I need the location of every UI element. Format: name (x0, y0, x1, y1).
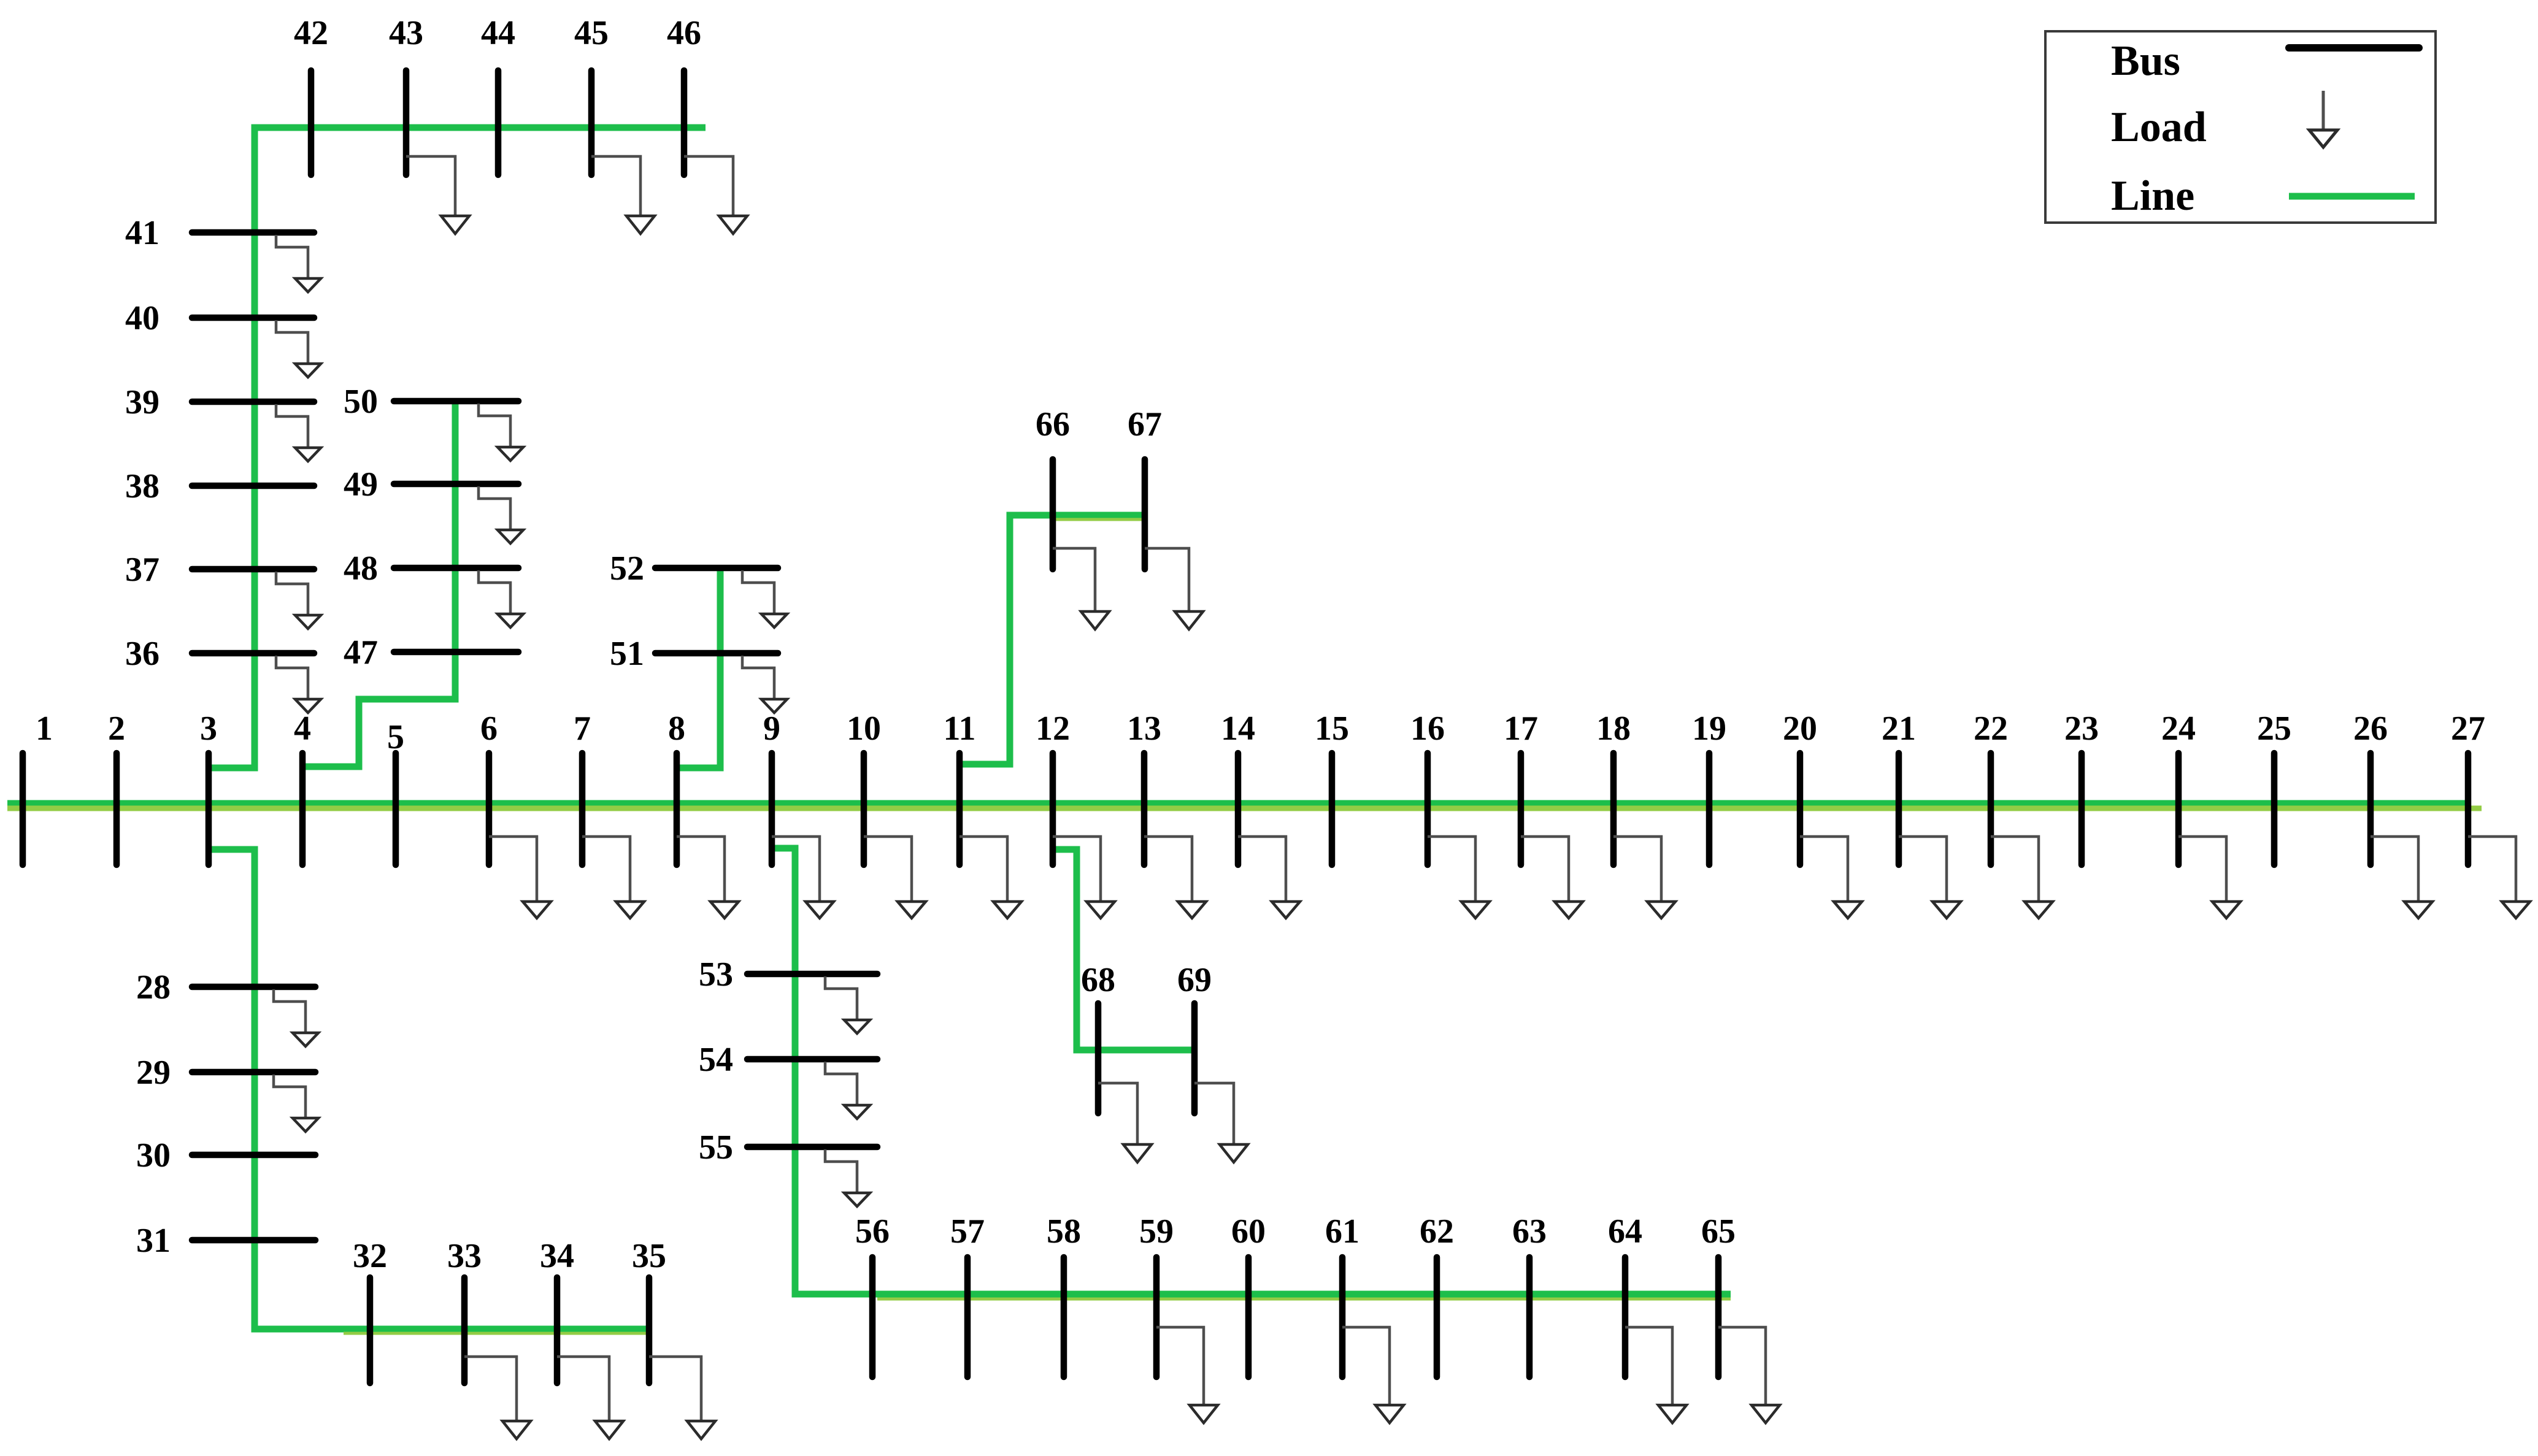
bus 56 (869, 1257, 876, 1377)
svg-text:1: 1 (36, 710, 53, 748)
bus 11 (956, 753, 963, 865)
svg-text:27: 27 (2451, 710, 2485, 748)
load at bus 6 (489, 837, 537, 902)
bus 41 (192, 229, 314, 236)
svg-text:59: 59 (1139, 1213, 1174, 1251)
load at bus 36 (276, 656, 308, 699)
bus 33 (461, 1278, 468, 1383)
svg-text:Bus: Bus (2111, 37, 2180, 85)
bus 22 (1988, 753, 1994, 865)
svg-text:3: 3 (200, 710, 217, 748)
svg-text:18: 18 (1596, 710, 1631, 748)
svg-text:16: 16 (1410, 710, 1445, 748)
wire main feeder 1-27 (7, 800, 2471, 806)
load at bus 18 (1613, 837, 1661, 902)
bus 51 (655, 650, 778, 657)
bus 10 (861, 753, 867, 865)
bus 1 (20, 753, 26, 865)
load at bus 34 (557, 1357, 609, 1421)
load at bus 50 (479, 404, 510, 447)
svg-text:54: 54 (699, 1041, 733, 1079)
bus 38 (192, 483, 314, 489)
svg-text:12: 12 (1036, 710, 1070, 748)
svg-text:63: 63 (1512, 1213, 1547, 1251)
load at bus 37 (276, 572, 308, 615)
svg-text:29: 29 (136, 1054, 171, 1092)
load at bus 24 (2178, 837, 2226, 902)
svg-text:52: 52 (610, 550, 644, 588)
load at bus 13 (1144, 837, 1192, 902)
svg-text:50: 50 (344, 383, 378, 421)
load at bus 48 (479, 570, 510, 614)
svg-text:61: 61 (1325, 1213, 1359, 1251)
bus 69 (1191, 1003, 1198, 1113)
bus 53 (747, 971, 877, 978)
bus 63 (1526, 1257, 1533, 1377)
load at bus 22 (1991, 837, 2039, 902)
svg-text:67: 67 (1128, 405, 1162, 443)
wire branch 11 to 66-67 (959, 515, 1146, 764)
bus 3 (206, 753, 212, 865)
svg-text:46: 46 (667, 14, 701, 52)
load at bus 14 (1238, 837, 1286, 902)
bus 67 (1142, 459, 1148, 569)
bus 39 (192, 399, 314, 405)
load at bus 7 (582, 837, 630, 902)
svg-text:28: 28 (136, 968, 171, 1006)
bus 18 (1610, 753, 1617, 865)
svg-text:2: 2 (108, 710, 125, 748)
wire branch 9 to 53-55 and 56-65 (772, 848, 1731, 1294)
bus 28 (192, 984, 315, 990)
bus 31 (192, 1237, 315, 1244)
bus 49 (394, 481, 518, 488)
load at bus 9 (772, 837, 820, 902)
svg-text:24: 24 (2161, 710, 2196, 748)
bus 68 (1095, 1003, 1102, 1113)
bus 23 (2078, 753, 2085, 865)
bus 9 (769, 753, 775, 865)
svg-text:8: 8 (668, 710, 685, 748)
load at bus 35 (649, 1357, 701, 1421)
svg-text:69: 69 (1177, 961, 1212, 999)
bus 27 (2465, 753, 2472, 865)
svg-text:32: 32 (353, 1237, 387, 1275)
svg-text:40: 40 (125, 299, 160, 337)
legend box (2045, 31, 2436, 223)
bus 14 (1235, 753, 1242, 865)
svg-text:Load: Load (2111, 104, 2207, 151)
svg-text:9: 9 (763, 710, 780, 748)
bus 60 (1245, 1257, 1252, 1377)
load at bus 27 (2468, 837, 2516, 902)
bus 2 (113, 753, 120, 865)
svg-text:7: 7 (574, 710, 591, 748)
load at bus 65 (1718, 1327, 1766, 1405)
legend line symbol (2289, 193, 2415, 200)
bus 45 (588, 71, 595, 175)
bus 7 (579, 753, 586, 865)
bus 44 (495, 71, 502, 175)
bus 40 (192, 315, 314, 321)
load at bus 68 (1098, 1083, 1137, 1144)
bus 50 (394, 398, 518, 405)
bus 48 (394, 565, 518, 572)
svg-text:53: 53 (699, 956, 733, 994)
svg-text:45: 45 (574, 14, 609, 52)
bus 55 (747, 1144, 877, 1151)
svg-text:41: 41 (125, 214, 160, 252)
load at bus 39 (276, 404, 308, 448)
load at bus 67 (1145, 548, 1189, 611)
bus 26 (2367, 753, 2374, 865)
svg-text:35: 35 (632, 1237, 666, 1275)
load at bus 52 (742, 570, 774, 614)
svg-text:43: 43 (389, 14, 423, 52)
bus 32 (367, 1278, 374, 1383)
load at bus 46 (684, 156, 733, 216)
bus 21 (1896, 753, 1902, 865)
svg-text:Line: Line (2111, 172, 2194, 220)
load at bus 10 (864, 837, 912, 902)
load at bus 54 (825, 1062, 857, 1105)
svg-text:15: 15 (1315, 710, 1349, 748)
bus 58 (1061, 1257, 1067, 1377)
svg-text:66: 66 (1036, 405, 1070, 443)
svg-text:11: 11 (944, 710, 976, 748)
bus 37 (192, 566, 314, 573)
svg-text:34: 34 (540, 1237, 574, 1275)
wire 66-67 underlay (1055, 518, 1145, 521)
load at bus 66 (1053, 548, 1095, 611)
bus 20 (1797, 753, 1804, 865)
load at bus 45 (591, 156, 640, 216)
bus 62 (1434, 1257, 1440, 1377)
svg-text:47: 47 (344, 634, 378, 672)
svg-text:62: 62 (1420, 1213, 1454, 1251)
load at bus 26 (2371, 837, 2418, 902)
svg-text:23: 23 (2064, 710, 2099, 748)
bus 64 (1622, 1257, 1629, 1377)
svg-text:22: 22 (1974, 710, 2008, 748)
load at bus 40 (276, 320, 308, 364)
load at bus 51 (742, 656, 774, 699)
svg-text:37: 37 (125, 551, 160, 589)
bus 34 (554, 1278, 561, 1383)
bus 8 (674, 753, 680, 865)
svg-text:57: 57 (950, 1213, 985, 1251)
load at bus 41 (276, 235, 308, 278)
bus 36 (192, 650, 314, 657)
load at bus 49 (479, 486, 510, 530)
wire main feeder underlay (7, 806, 2482, 811)
wire 32-35 underlay (344, 1332, 650, 1335)
svg-text:65: 65 (1701, 1213, 1736, 1251)
bus 59 (1153, 1257, 1160, 1377)
bus 47 (394, 649, 518, 656)
svg-text:51: 51 (610, 635, 644, 673)
bus 46 (681, 71, 688, 175)
legend load symbol (2322, 91, 2325, 130)
svg-text:30: 30 (136, 1136, 171, 1174)
load at bus 8 (677, 837, 725, 902)
svg-text:21: 21 (1882, 710, 1916, 748)
bus 6 (486, 753, 493, 865)
bus 12 (1050, 753, 1056, 865)
wire branch 3 to 36-41 and 42-46 (209, 128, 706, 768)
load at bus 16 (1428, 837, 1475, 902)
svg-text:13: 13 (1127, 710, 1161, 748)
svg-text:6: 6 (480, 710, 498, 748)
bus 57 (964, 1257, 971, 1377)
load at bus 28 (274, 989, 306, 1033)
bus 43 (403, 71, 410, 175)
svg-text:38: 38 (125, 467, 160, 505)
load at bus 11 (959, 837, 1007, 902)
load at bus 61 (1342, 1327, 1390, 1405)
svg-text:4: 4 (294, 710, 311, 748)
svg-text:25: 25 (2257, 710, 2291, 748)
wire branch 4 to 47-50 (302, 401, 455, 767)
bus 13 (1141, 753, 1148, 865)
load at bus 33 (464, 1357, 517, 1421)
bus 5 (393, 753, 399, 865)
svg-text:14: 14 (1221, 710, 1255, 748)
bus 17 (1518, 753, 1525, 865)
wire branch 3 to 28-31 and 32-35 (209, 849, 652, 1329)
load at bus 55 (825, 1149, 857, 1193)
load at bus 12 (1053, 837, 1101, 902)
svg-text:42: 42 (294, 14, 328, 52)
svg-text:60: 60 (1231, 1213, 1266, 1251)
svg-text:20: 20 (1783, 710, 1817, 748)
svg-text:31: 31 (136, 1222, 171, 1260)
bus 24 (2175, 753, 2182, 865)
wire branch 8 to 51-52 (677, 568, 720, 768)
svg-text:5: 5 (387, 718, 404, 756)
load at bus 21 (1899, 837, 1947, 902)
bus 54 (747, 1056, 877, 1063)
bus 61 (1339, 1257, 1346, 1377)
bus 25 (2271, 753, 2278, 865)
wire 56-65 underlay (877, 1298, 1731, 1301)
wire branch 12 to 68-69 (1053, 849, 1196, 1050)
svg-text:26: 26 (2353, 710, 2388, 748)
svg-text:33: 33 (447, 1237, 482, 1275)
load at bus 20 (1800, 837, 1848, 902)
bus 42 (308, 71, 315, 175)
bus 35 (646, 1278, 653, 1383)
load at bus 53 (825, 976, 857, 1020)
svg-text:44: 44 (481, 14, 515, 52)
svg-text:58: 58 (1047, 1213, 1081, 1251)
svg-text:36: 36 (125, 635, 160, 673)
bus 16 (1425, 753, 1431, 865)
bus 4 (299, 753, 306, 865)
bus 15 (1329, 753, 1336, 865)
load at bus 29 (274, 1075, 306, 1118)
bus 30 (192, 1152, 315, 1159)
bus 29 (192, 1069, 315, 1076)
svg-text:49: 49 (344, 466, 378, 504)
svg-text:10: 10 (847, 710, 881, 748)
load at bus 43 (406, 156, 455, 216)
svg-text:56: 56 (855, 1213, 890, 1251)
svg-text:55: 55 (699, 1128, 733, 1167)
bus 65 (1715, 1257, 1722, 1377)
bus 19 (1706, 753, 1713, 865)
svg-text:64: 64 (1608, 1213, 1642, 1251)
svg-text:68: 68 (1081, 961, 1115, 999)
load at bus 64 (1625, 1327, 1672, 1405)
bus 66 (1050, 459, 1056, 569)
bus 52 (655, 565, 778, 572)
svg-text:39: 39 (125, 383, 160, 421)
svg-text:48: 48 (344, 550, 378, 588)
load at bus 59 (1156, 1327, 1204, 1405)
svg-text:19: 19 (1692, 710, 1726, 748)
legend bus symbol (2289, 44, 2419, 52)
load at bus 17 (1521, 837, 1569, 902)
svg-text:17: 17 (1504, 710, 1538, 748)
load at bus 69 (1194, 1083, 1234, 1144)
